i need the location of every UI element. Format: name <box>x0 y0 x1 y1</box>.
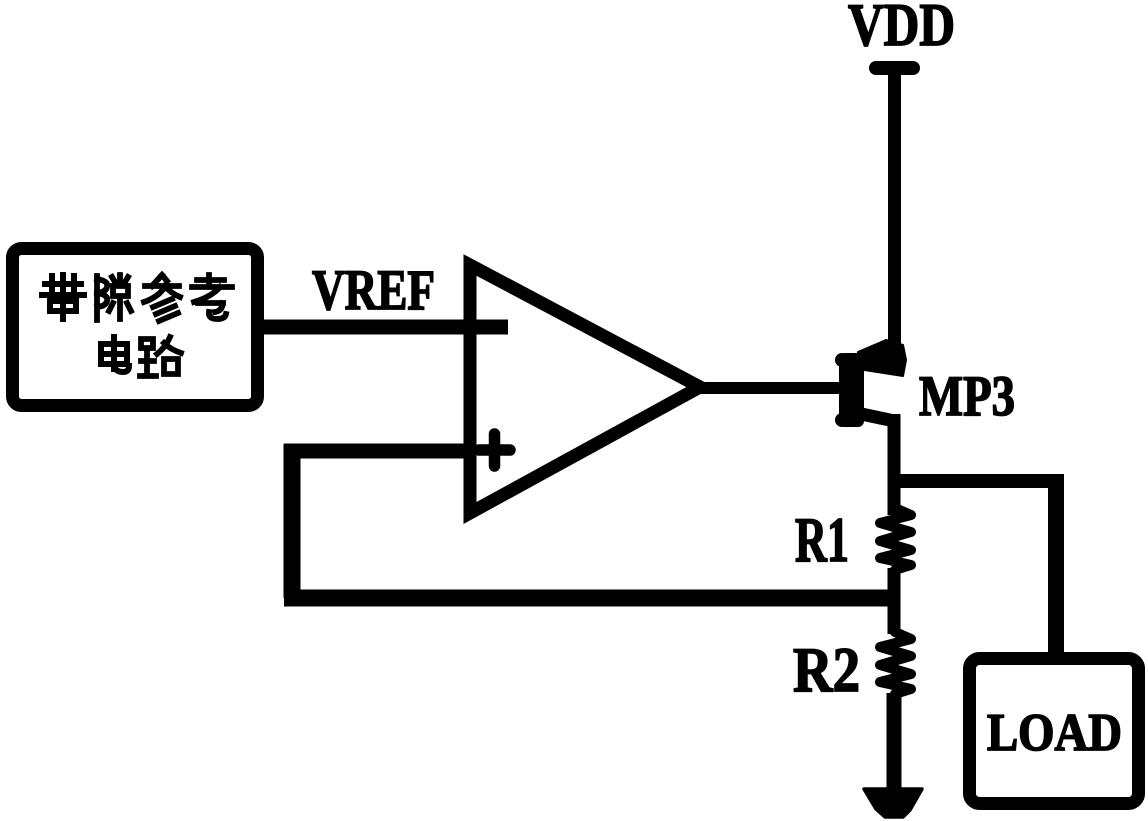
label: 隙 (xi) <box>97 275 131 320</box>
resistor R2 <box>880 632 911 694</box>
wire: output node branch to LOAD <box>894 474 1062 488</box>
plus mark (non-inverting input) <box>479 434 510 466</box>
wire: VREF net, box output to op-amp inverting input (minus bar) <box>257 320 508 335</box>
wire: R1 to R2 <box>888 568 901 634</box>
wire: VDD to MP3 source <box>888 70 901 360</box>
svg-text:VREF: VREF <box>312 259 435 322</box>
wire: feedback left vertical <box>284 444 301 598</box>
VDD supply bar <box>869 61 920 75</box>
label: 参 (can) <box>144 275 180 321</box>
wire: feedback to non-inverting input <box>284 444 466 459</box>
ground symbol <box>864 789 922 817</box>
transistor MP3 <box>835 340 906 515</box>
svg-text:VDD: VDD <box>848 0 955 58</box>
wire: op-amp output to gate of MP3 <box>700 382 846 394</box>
svg-text:LOAD: LOAD <box>987 704 1122 762</box>
svg-text:MP3: MP3 <box>919 365 1015 428</box>
wire: R2 to ground <box>887 693 902 794</box>
LOAD box <box>970 659 1139 804</box>
label: 电 (dian) <box>101 337 129 372</box>
svg-text:R2: R2 <box>793 635 860 705</box>
block: bandgap reference circuit box <box>13 249 258 406</box>
op-amp U1 <box>470 265 700 513</box>
resistor R1 <box>880 508 911 570</box>
wire: feedback bottom horizontal <box>284 590 894 607</box>
label: 带 (dai) <box>42 275 84 319</box>
label: 路 (lu) <box>140 337 181 376</box>
svg-text:R1: R1 <box>795 505 849 575</box>
wire: right vertical down to LOAD <box>1048 474 1064 660</box>
label: 考 (kao) <box>192 275 232 319</box>
